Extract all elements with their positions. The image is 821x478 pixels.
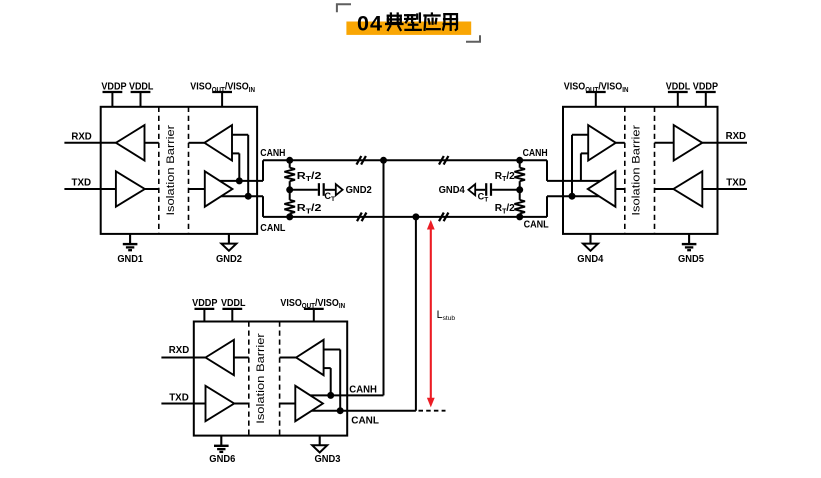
- svg-text:RXD: RXD: [169, 344, 190, 356]
- svg-text:Lstub​: Lstub​: [437, 309, 456, 322]
- svg-text:RT​/2: RT​/2: [297, 202, 322, 215]
- svg-text:CT​: CT​: [324, 191, 335, 203]
- svg-text:CANL: CANL: [524, 219, 550, 231]
- svg-text:04: 04: [357, 11, 383, 35]
- svg-text:CANL: CANL: [260, 222, 286, 234]
- svg-text:VISOOUT​/VISOIN​: VISOOUT​/VISOIN​: [280, 297, 345, 310]
- svg-text:TXD: TXD: [169, 392, 189, 404]
- svg-text:GND2: GND2: [216, 253, 242, 265]
- svg-text:VDDP: VDDP: [693, 81, 718, 93]
- svg-text:RXD: RXD: [71, 130, 92, 142]
- svg-text:CANH: CANH: [349, 384, 377, 396]
- svg-text:VDDP: VDDP: [192, 297, 217, 309]
- svg-text:VDDL: VDDL: [666, 81, 691, 93]
- svg-text:RT​/2: RT​/2: [495, 170, 515, 183]
- svg-text:GND1: GND1: [117, 253, 143, 265]
- svg-text:CANH: CANH: [523, 147, 548, 159]
- svg-text:RT​/2: RT​/2: [297, 170, 322, 183]
- svg-text:RXD: RXD: [726, 130, 747, 142]
- svg-text:VISOOUT​/VISOIN​: VISOOUT​/VISOIN​: [190, 81, 255, 94]
- svg-text:VDDL: VDDL: [221, 297, 246, 309]
- svg-text:GND3: GND3: [315, 453, 341, 465]
- svg-text:VISOOUT​/VISOIN​: VISOOUT​/VISOIN​: [564, 81, 629, 94]
- svg-text:VDDL: VDDL: [129, 81, 154, 93]
- svg-text:TXD: TXD: [72, 177, 92, 189]
- svg-text:GND4: GND4: [577, 253, 603, 265]
- svg-text:Isolation Barrier: Isolation Barrier: [255, 333, 267, 424]
- svg-text:GND2: GND2: [346, 184, 372, 196]
- svg-text:CANH: CANH: [260, 147, 285, 159]
- svg-text:VDDP: VDDP: [101, 81, 126, 93]
- svg-text:GND5: GND5: [678, 253, 704, 265]
- svg-text:Isolation Barrier: Isolation Barrier: [165, 125, 177, 216]
- svg-text:TXD: TXD: [726, 177, 746, 189]
- svg-text:GND6: GND6: [209, 453, 235, 465]
- svg-text:RT​/2: RT​/2: [495, 202, 515, 215]
- svg-text:Isolation Barrier: Isolation Barrier: [631, 125, 643, 216]
- svg-text:CANL: CANL: [351, 414, 379, 426]
- svg-text:GND4: GND4: [439, 184, 465, 196]
